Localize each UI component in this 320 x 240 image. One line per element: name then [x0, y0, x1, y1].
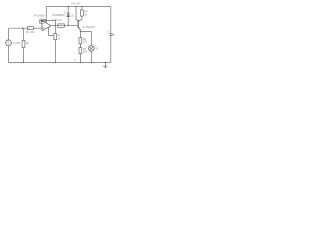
wire top rail VCC: [46, 6, 111, 8]
svg-text:R2: R2: [26, 42, 30, 45]
svg-text:X1: X1: [95, 47, 99, 51]
svg-text:VCC 9V: VCC 9V: [71, 2, 80, 6]
svg-text:1k: 1k: [58, 37, 61, 40]
svg-text:9V: 9V: [112, 33, 115, 37]
transistor Q1: [76, 7, 81, 32]
wire lamp branch: [80, 32, 91, 46]
node diode top: [68, 6, 69, 7]
node R4 top: [81, 6, 82, 7]
svg-text:1N4148(D1): 1N4148(D1): [52, 13, 65, 17]
svg-text:Q1 2N2222: Q1 2N2222: [82, 25, 95, 29]
resistor R3 output pulldown: [54, 26, 57, 63]
svg-text:470: 470: [83, 40, 88, 44]
op-amp U1: [40, 21, 51, 31]
wire right edge to battery: [110, 7, 112, 34]
node R2 bottom: [23, 62, 24, 63]
svg-text:+: +: [107, 30, 109, 33]
svg-text:10k: 10k: [16, 41, 21, 45]
wire op-amp V+ pin: [45, 7, 47, 24]
resistor R5: [58, 24, 65, 27]
battery V2: [109, 34, 113, 63]
resistor R6: [79, 38, 82, 48]
svg-text:R1 10k: R1 10k: [26, 30, 35, 34]
node output junction: [55, 25, 56, 26]
wire output: [51, 25, 78, 27]
wire bottom rail: [9, 61, 111, 63]
svg-text:R5 1.2k: R5 1.2k: [54, 18, 63, 22]
source V1: [6, 28, 12, 62]
ground: [103, 62, 107, 67]
node collector rail: [75, 6, 76, 7]
wire feedback: [40, 21, 56, 26]
wire op-amp V- pin: [49, 27, 54, 35]
svg-text:U1A: U1A: [38, 17, 43, 21]
node between R6 R7: [80, 45, 81, 46]
node ground rail: [105, 62, 106, 63]
node emitter junction: [80, 31, 81, 32]
wire R1 to op-amp: [34, 27, 42, 29]
node R7 bottom: [80, 62, 81, 63]
resistor R1: [27, 27, 33, 30]
svg-text:OP-LM358: OP-LM358: [33, 13, 45, 17]
resistor R4 collector: [79, 7, 83, 22]
resistor R7: [79, 48, 82, 63]
node R3 bottom: [55, 62, 56, 63]
svg-text:220: 220: [83, 50, 88, 54]
wire emitter down: [79, 32, 81, 38]
node collector R join: [78, 20, 79, 21]
node input junction: [22, 28, 23, 29]
lamp X1: [88, 44, 96, 63]
resistor R2: [22, 28, 25, 62]
node lamp bottom: [91, 62, 92, 63]
svg-text:D1: D1: [71, 14, 75, 17]
diode D1: [64, 7, 70, 26]
node base junction: [68, 25, 69, 26]
svg-text:0: 0: [75, 59, 77, 62]
wire input top: [9, 27, 28, 29]
resistor R2f feedback: [41, 19, 46, 21]
